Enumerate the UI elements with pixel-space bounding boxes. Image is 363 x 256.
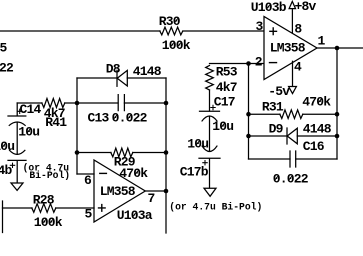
junction node A mid <box>164 101 169 106</box>
svg-text:LM358: LM358 <box>100 184 136 199</box>
wire R41 to node A <box>65 102 77 104</box>
svg-text:6: 6 <box>84 173 92 188</box>
wire R28 to pin 5 <box>56 207 94 209</box>
op-amp U103a LM358 <box>94 160 153 223</box>
junction pin 2 node <box>246 61 251 66</box>
wire top branch left <box>77 77 117 79</box>
svg-text:5: 5 <box>0 40 8 55</box>
wire input net (top rail to U103b pin 3) <box>0 30 160 32</box>
svg-text:3: 3 <box>256 19 264 34</box>
resistor R29 470k <box>111 148 149 181</box>
junction R29 right <box>164 150 169 155</box>
wire left edge vertical <box>2 201 4 233</box>
svg-text:R28: R28 <box>33 192 55 207</box>
wire R31 left <box>249 113 281 115</box>
svg-text:4148: 4148 <box>303 121 332 136</box>
diode D8 1N4148 <box>106 62 162 87</box>
svg-text:4: 4 <box>294 59 302 74</box>
svg-text:5: 5 <box>85 207 93 222</box>
svg-text:R53: R53 <box>216 64 238 79</box>
resistor R31 470k <box>262 94 331 118</box>
wire right rail (U103a output column) <box>165 78 167 233</box>
wire bottom branch right <box>133 152 166 154</box>
wire mid branch right <box>124 102 166 104</box>
wire pin 2 net <box>210 63 265 65</box>
wire U103a output <box>145 190 166 192</box>
wire D9 right <box>297 135 337 137</box>
capacitor C17 10u <box>200 95 235 152</box>
wire R31 right <box>303 113 337 115</box>
wire U103b output <box>317 47 363 49</box>
svg-text:D8: D8 <box>106 62 121 77</box>
svg-text:+8v: +8v <box>295 0 317 14</box>
svg-text:C17b: C17b <box>180 165 209 180</box>
svg-text:(or 4.7u Bi-Pol): (or 4.7u Bi-Pol) <box>169 202 262 213</box>
svg-text:10u: 10u <box>187 136 208 151</box>
wire bottom branch left <box>77 152 111 154</box>
power +8v <box>289 0 316 33</box>
wire right net left rail <box>248 64 250 160</box>
junction R31 right <box>335 112 340 117</box>
wire D9 left <box>249 135 288 137</box>
junction D9 left <box>246 134 251 139</box>
resistor R41 4k7 <box>42 99 68 130</box>
junction R31 left <box>246 112 251 117</box>
svg-text:U103b: U103b <box>251 0 287 15</box>
resistor R30 100k <box>159 14 191 53</box>
svg-text:0.022: 0.022 <box>112 111 148 126</box>
svg-text:Bi-Pol): Bi-Pol) <box>29 170 70 181</box>
wire left rail (node A column) <box>76 78 78 174</box>
resistor R28 100k <box>32 192 63 230</box>
wire C16 left <box>249 158 291 160</box>
svg-text:C16: C16 <box>303 139 325 154</box>
svg-text:2: 2 <box>255 55 263 70</box>
wire pin 5 / R28 net <box>3 207 33 209</box>
svg-text:22: 22 <box>0 61 14 76</box>
svg-text:8: 8 <box>294 21 302 36</box>
wire right net right rail <box>336 48 338 159</box>
resistor R53 4k7 <box>206 64 238 95</box>
junction D9 right <box>335 134 340 139</box>
svg-text:10u: 10u <box>18 124 39 139</box>
svg-text:LM358: LM358 <box>270 40 306 55</box>
svg-text:R41: R41 <box>45 115 67 130</box>
wire pin 6 stub <box>77 173 94 175</box>
wire R30 to pin 3 <box>183 30 264 32</box>
op-amp U103b LM358 <box>251 0 317 79</box>
capacitor C13 0.022 <box>88 95 148 126</box>
diode D9 1N4148 <box>269 121 332 144</box>
ground (C14b) <box>11 183 23 190</box>
svg-text:10u: 10u <box>0 139 14 154</box>
junction output node <box>335 46 340 51</box>
wire mid branch left <box>77 102 118 104</box>
svg-text:10u: 10u <box>212 119 233 134</box>
svg-text:100k: 100k <box>162 38 191 53</box>
svg-text:1: 1 <box>318 33 326 48</box>
svg-text:470k: 470k <box>302 94 331 109</box>
wire top branch right <box>127 77 166 79</box>
capacitor C14b 10u (clipped) <box>0 139 26 183</box>
svg-text:C13: C13 <box>88 111 110 126</box>
ground (C17b) <box>204 188 216 196</box>
svg-text:R31: R31 <box>262 100 284 115</box>
capacitor C16 0.022 <box>273 139 325 187</box>
svg-text:U103a: U103a <box>117 208 153 223</box>
wire C14 to R41 <box>17 102 42 104</box>
wire R53 to C17 <box>209 90 211 111</box>
junction R29 left <box>75 150 80 155</box>
svg-text:4k7: 4k7 <box>216 80 237 95</box>
junction U103a output <box>164 189 169 194</box>
capacitor C17b 10u <box>180 136 220 188</box>
node A junction <box>75 101 80 106</box>
wire C16 right <box>296 158 337 160</box>
svg-text:100k: 100k <box>34 215 63 230</box>
svg-text:0.022: 0.022 <box>273 172 309 187</box>
svg-text:D9: D9 <box>269 121 284 136</box>
svg-text:C14: C14 <box>20 102 42 117</box>
svg-text:7: 7 <box>148 191 155 206</box>
svg-text:-5v: -5v <box>268 84 290 99</box>
note (or 4.7u Bi-Pol) left <box>23 162 71 181</box>
svg-text:R30: R30 <box>159 14 181 29</box>
capacitor C14 10u <box>8 102 42 154</box>
svg-text:C17: C17 <box>214 95 235 110</box>
power -5v <box>268 61 296 99</box>
svg-text:4148: 4148 <box>133 64 162 79</box>
